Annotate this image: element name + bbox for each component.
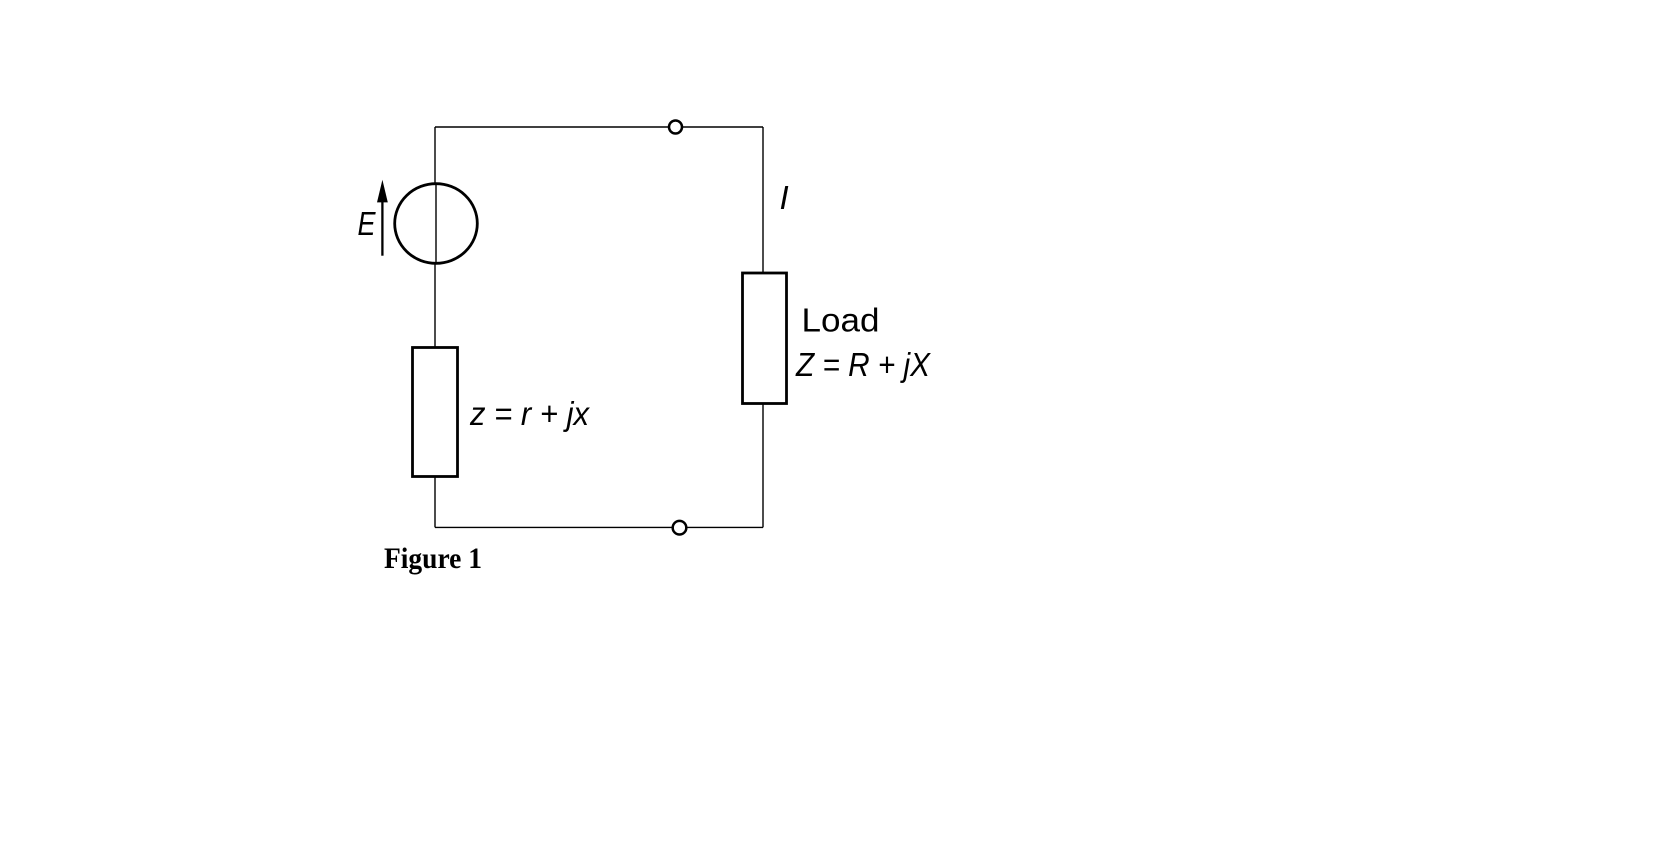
svg-text:Load: Load bbox=[802, 302, 880, 339]
svg-text:Figure 1: Figure 1 bbox=[384, 542, 482, 575]
svg-text:E: E bbox=[358, 205, 377, 242]
svg-text:Z = R + jX: Z = R + jX bbox=[795, 346, 932, 383]
svg-text:I: I bbox=[780, 179, 789, 216]
svg-text:z = r + jx: z = r + jx bbox=[469, 395, 590, 432]
